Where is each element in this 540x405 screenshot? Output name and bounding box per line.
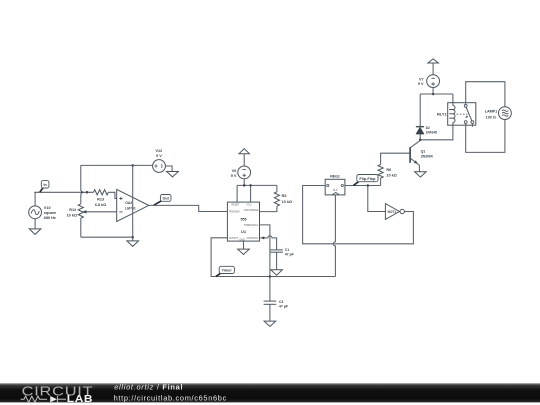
svg-text:REG1: REG1: [330, 175, 340, 179]
RLY1 mechanical link dashed: [457, 113, 468, 115]
svg-text:elliot.ortiz / Final: elliot.ortiz / Final: [114, 383, 183, 392]
value label C3 47 pF: [279, 300, 288, 308]
wire V6 rail: [237, 184, 277, 186]
ground below C3: [264, 321, 276, 326]
value label R12 10 k: [67, 208, 77, 217]
wire REG1 Q output net: [345, 185, 381, 187]
svg-text:RESET: RESET: [232, 204, 241, 207]
R12 wiper arrow: [82, 210, 86, 214]
value label D2 1N4148: [426, 126, 437, 134]
potentiometer R12: [78, 204, 83, 218]
node op-amp V-: [131, 236, 134, 239]
value label V7 9 V: [418, 77, 424, 86]
wire net In horizontal: [34, 191, 93, 193]
voltage source V10: [29, 206, 42, 219]
svg-text:555: 555: [241, 217, 247, 221]
wire R13 to op-amp plus input: [108, 192, 116, 198]
value label Q1 2N3904: [421, 150, 433, 159]
IC U1 555 box: [227, 202, 259, 241]
wire op-amp power vertical: [132, 165, 134, 237]
svg-text:OUTPUT: OUTPUT: [229, 237, 239, 240]
svg-text:V10: V10: [44, 206, 51, 210]
footer bar: [0, 383, 540, 402]
svg-text:9 V: 9 V: [156, 154, 162, 158]
svg-text:C1: C1: [285, 248, 289, 252]
svg-text:THRESHOLD: THRESHOLD: [244, 224, 259, 227]
svg-text:LAMP1: LAMP1: [485, 110, 498, 114]
value label LAMP1 100 ohm: [485, 110, 498, 120]
svg-text:square: square: [44, 211, 56, 215]
value label R13 6.8 k: [95, 198, 107, 207]
svg-text:R12: R12: [69, 208, 76, 212]
U1 pin labels: [229, 204, 259, 242]
REG1 pin circle Q: [341, 184, 343, 186]
wire V10 top lead: [34, 192, 36, 206]
flag Flip-Flop: [354, 182, 359, 186]
ground below C1: [271, 270, 283, 276]
node arrow on In net: [81, 191, 84, 194]
resistor R6: [378, 165, 383, 179]
wire branch to NOT1 input: [368, 186, 386, 212]
wire V7 top lead: [432, 63, 434, 75]
FOOTER: [0, 383, 540, 405]
wire R12 wiper to op-amp minus input: [86, 211, 117, 213]
value label V12 9 V: [156, 149, 163, 158]
RLY1 switch: [464, 105, 467, 108]
REG1 clock wedge: [332, 192, 339, 195]
wire C1 bottom lead: [276, 252, 278, 269]
wire V6 top lead: [243, 154, 245, 166]
voltage source V6: [238, 166, 251, 179]
node collector/diode: [419, 139, 422, 142]
wire C3 top lead: [269, 277, 271, 302]
power flag above V6: [239, 149, 249, 154]
svg-text:OA2: OA2: [125, 201, 132, 205]
capacitor C3: [264, 301, 277, 304]
svg-text:V7: V7: [419, 77, 424, 81]
svg-text:10 kΩ: 10 kΩ: [282, 200, 292, 204]
svg-text:R13: R13: [97, 198, 104, 202]
resistor R3: [274, 192, 279, 206]
svg-text:GND: GND: [239, 238, 245, 241]
wire bottom rail: [81, 236, 133, 238]
wire vcc drop: [250, 185, 252, 202]
wire left feedback vertical (top rail drop): [81, 165, 83, 204]
svg-text:R6: R6: [386, 168, 391, 172]
node op-amp V+: [131, 164, 134, 167]
flag Timer: [216, 273, 221, 276]
svg-text:LM741: LM741: [125, 206, 136, 210]
register REG1 box: [325, 179, 345, 195]
wire REG1 D input loop from NOT1 output: [303, 186, 414, 244]
diode D2 1N4148: [416, 127, 424, 134]
ground right of V12: [167, 172, 179, 177]
ground below op-amp: [132, 237, 134, 241]
svg-text:47 pF: 47 pF: [279, 304, 288, 308]
wire V7 rail: [420, 94, 453, 103]
node V6/rail: [243, 184, 246, 187]
transistor Q1 2N3904: [409, 147, 411, 163]
wire V10 bottom lead: [34, 219, 36, 229]
wire V6 bottom lead: [243, 179, 245, 186]
svg-text:U1: U1: [241, 229, 247, 234]
value label V10 square 680 Hz: [44, 206, 56, 220]
wire gnd pin stub: [243, 241, 245, 249]
svg-text:V6: V6: [232, 169, 237, 173]
RLY1 coil: [449, 103, 455, 126]
capacitor C1: [270, 250, 283, 252]
svg-text:R3: R3: [282, 194, 287, 198]
node VCC branch: [249, 184, 252, 187]
value label R6 10 k: [386, 168, 396, 178]
svg-text:C3: C3: [279, 300, 283, 304]
wire R12 bottom lead: [80, 218, 82, 237]
svg-text:100 Ω: 100 Ω: [486, 116, 496, 120]
wire op-amp output to 555 trigger: [149, 205, 228, 211]
svg-text:http://circuitlab.com/c65n6bc: http://circuitlab.com/c65n6bc: [114, 393, 227, 402]
CircuitLab logo resistor-diode glyph: [21, 396, 66, 402]
node Q net branch: [367, 184, 370, 187]
wire collector to relay coil: [420, 125, 453, 140]
wire switch top pin to lamp loop: [466, 82, 505, 107]
wire V7 bottom lead: [432, 88, 434, 95]
value label V6 9 V: [231, 169, 237, 178]
Q1 emitter arrow: [414, 160, 418, 163]
svg-text:9 V: 9 V: [231, 174, 237, 178]
svg-text:V12: V12: [156, 149, 163, 153]
wire top rail to V12: [81, 164, 153, 166]
wire threshold to timer net: [260, 225, 270, 277]
node timer/threshold junction: [269, 275, 272, 278]
inverter NOT1: [385, 204, 399, 220]
wire clk riser with hop: [333, 195, 335, 277]
node control: [262, 237, 265, 240]
ground below V10: [29, 229, 41, 235]
wire R3 top lead: [276, 185, 278, 191]
svg-text:DISCHARGE: DISCHARGE: [244, 209, 259, 212]
svg-text:1N4148: 1N4148: [426, 130, 437, 134]
svg-text:2N3904: 2N3904: [421, 154, 433, 158]
wire C3 bottom lead: [269, 304, 271, 321]
wire control with hop: [260, 236, 277, 250]
relay RLY1 box: [448, 103, 476, 126]
wire R3 to discharge pin: [260, 206, 277, 211]
value label R3 10 k: [282, 194, 292, 204]
svg-text:NOT1: NOT1: [388, 210, 397, 214]
svg-text:LAB: LAB: [67, 394, 93, 405]
svg-text:47 pF: 47 pF: [285, 253, 294, 257]
wire Q1 collector: [419, 134, 421, 140]
lamp LAMP1: [499, 107, 512, 120]
svg-text:RLY1: RLY1: [437, 112, 448, 117]
wire D2 cathode up to V7 rail: [419, 94, 421, 127]
svg-text:6.8 kΩ: 6.8 kΩ: [95, 203, 107, 207]
svg-text:CONTROL: CONTROL: [247, 237, 259, 240]
value label C1 47 pF: [285, 248, 294, 256]
ground below Q1: [415, 172, 427, 177]
svg-text:TRIGGER: TRIGGER: [229, 211, 240, 214]
svg-text:Flip-Flop: Flip-Flop: [359, 177, 376, 181]
resistor R13: [94, 190, 109, 195]
node junction In/R13: [86, 191, 89, 194]
flag Out: [154, 201, 162, 206]
wire output pin to timer net: [211, 238, 335, 277]
svg-text:Out: Out: [163, 197, 170, 201]
svg-text:10 kΩ: 10 kΩ: [386, 173, 396, 177]
wire V12 to ground: [165, 166, 172, 172]
RLY1 NO stub: [471, 124, 473, 127]
svg-text:Timer: Timer: [222, 269, 233, 273]
svg-text:VCC: VCC: [246, 204, 251, 207]
svg-text:9 V: 9 V: [418, 82, 424, 86]
flag In: [40, 188, 43, 192]
svg-text:10 kΩ: 10 kΩ: [67, 214, 77, 218]
svg-text:680 Hz: 680 Hz: [44, 216, 56, 220]
svg-text:Q1: Q1: [421, 150, 426, 154]
voltage source V7: [427, 75, 440, 88]
wire R6 to Q1 base: [381, 153, 410, 164]
svg-text:CLK: CLK: [333, 189, 338, 192]
REG1 pin circle D: [327, 184, 329, 186]
SCHEMATIC: [29, 149, 228, 246]
node V7/rail: [432, 93, 435, 96]
wire reset drop: [236, 185, 238, 202]
voltage source V12: [153, 160, 166, 173]
op-amp OA2 LM741: [117, 189, 149, 221]
power flag above V7: [428, 59, 438, 63]
wire switch bottom pin to lamp loop: [466, 119, 505, 152]
ground below U1: [238, 249, 250, 254]
wire R6 bottom lead: [380, 178, 382, 185]
